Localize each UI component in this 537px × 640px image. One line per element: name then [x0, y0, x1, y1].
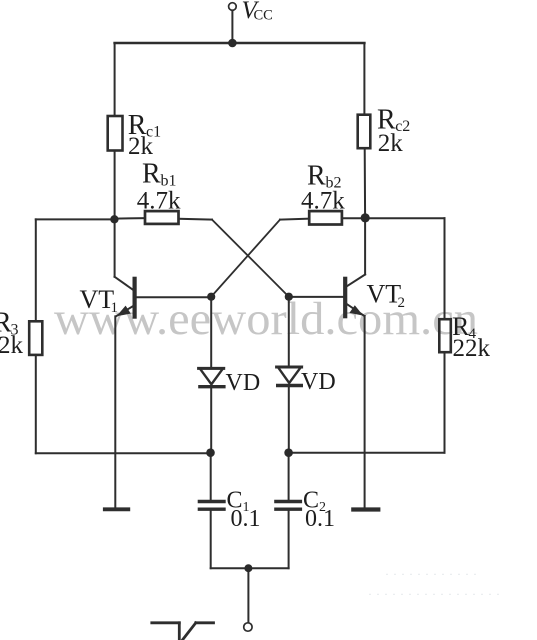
wire top rail [115, 42, 365, 45]
svg-text:············: ············ [385, 567, 481, 581]
svg-text:22k: 22k [453, 335, 491, 362]
label Vcc [242, 0, 273, 24]
wire node to C1 [210, 453, 212, 500]
svg-text:2: 2 [398, 295, 406, 311]
wire output stem [247, 568, 249, 622]
wire VT1 base to diode VD1 [210, 297, 212, 368]
ground right [353, 507, 378, 511]
wire bottom left horizontal [36, 452, 211, 454]
resistor R3 [29, 321, 42, 355]
wire right rail below Rc2 [364, 148, 366, 218]
resistor Rc1 [108, 116, 123, 151]
svg-text:VT: VT [367, 280, 402, 309]
svg-text:0.1: 0.1 [305, 506, 335, 532]
wire collector feed right [365, 217, 444, 219]
label Rc2 2k [377, 105, 410, 158]
wire Rb2 left [280, 219, 309, 220]
wire left far rail lower [35, 355, 37, 453]
output terminal circle [244, 623, 252, 631]
label R4 22k [452, 312, 491, 362]
node output junction [244, 564, 252, 572]
wire Rb1 left [114, 217, 145, 219]
wire cross diagonal Rb2 to VT1 base [211, 220, 280, 297]
svg-text:4.7k: 4.7k [301, 188, 345, 215]
svg-text:CC: CC [254, 8, 273, 24]
node VD2 cathode junction [284, 448, 293, 457]
node Vcc junction [228, 39, 237, 48]
Vcc terminal circle [229, 3, 237, 11]
capacitor C1 [199, 502, 224, 510]
label Rb1 4.7k [137, 159, 181, 215]
wire cross diagonal Rb1 to VT2 base [212, 220, 289, 297]
capacitor C2 [276, 502, 301, 510]
wire right rail top [363, 43, 365, 115]
node VD1 cathode junction [206, 448, 215, 457]
resistor Rb1 [145, 211, 179, 224]
label Rb2 4.7k [301, 161, 345, 215]
trigger pulse symbol [152, 623, 214, 640]
wire C1 down [210, 511, 212, 568]
label Rc1 2k [128, 110, 161, 160]
diode VD1 [199, 368, 224, 386]
svg-text:·················: ················· [368, 587, 504, 601]
svg-text:4.7k: 4.7k [137, 188, 181, 215]
wire left rail below Rc1 [114, 151, 116, 220]
node VT2 base junction [285, 293, 293, 301]
resistor R4 [439, 319, 451, 352]
wire right far rail upper [444, 218, 446, 319]
label R3 2k [0, 308, 24, 360]
svg-text:0.1: 0.1 [231, 506, 261, 532]
transistor VT1 [115, 277, 212, 508]
wire VD1 to node [210, 387, 212, 453]
wire VT2 base to diode VD2 [288, 297, 290, 366]
wire node to C2 [288, 453, 290, 500]
resistor Rc2 [358, 115, 371, 149]
svg-text:1: 1 [111, 300, 119, 316]
transistor VT2 [289, 218, 365, 508]
label C2 0.1 [303, 488, 335, 533]
wire VD2 to node [288, 386, 290, 453]
svg-text:R: R [142, 159, 161, 190]
node VT2 collector junction [361, 213, 370, 222]
wire left rail upper [114, 43, 116, 116]
svg-text:VT: VT [80, 285, 115, 314]
wire base feed left [36, 218, 115, 220]
wire Rb2 right [342, 217, 365, 219]
diode VD2 [277, 367, 302, 386]
wire left far rail upper [35, 219, 37, 321]
wire bottom link [211, 567, 289, 569]
resistor Rb2 [309, 211, 342, 224]
wire Rb1 right [179, 218, 213, 221]
ground left [105, 507, 129, 511]
svg-text:VD: VD [301, 369, 336, 395]
svg-text:2k: 2k [378, 130, 404, 157]
faint watermark dots bottom right [368, 567, 504, 601]
node VT1 collector junction [110, 215, 118, 223]
node VT1 base junction [207, 293, 215, 301]
wire collector rail VT1 [114, 219, 116, 276]
wire C2 down [288, 511, 290, 568]
wire right far rail lower [444, 352, 446, 453]
wire Vcc stem [231, 10, 233, 43]
svg-text:2k: 2k [128, 133, 154, 160]
svg-text:2k: 2k [0, 332, 24, 359]
label C1 0.1 [227, 488, 261, 533]
svg-text:VD: VD [226, 370, 261, 396]
label VT1 [80, 285, 119, 316]
wire bottom right horizontal [289, 452, 445, 454]
label VT2 [367, 280, 406, 311]
